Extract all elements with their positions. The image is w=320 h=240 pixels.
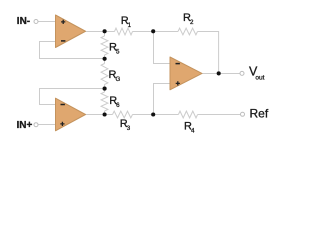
svg-text:Ref: Ref bbox=[250, 106, 269, 120]
wire A1 output to node bbox=[86, 31, 105, 33]
resistor R2 bbox=[178, 28, 198, 35]
wire A1 feedback to R5/RG node bbox=[40, 42, 105, 59]
wire R2 to output node bbox=[198, 32, 219, 74]
wire A3 output to node bbox=[202, 73, 219, 75]
node A1out/R5 bbox=[103, 29, 107, 33]
node R3/R4/A3+ bbox=[151, 112, 155, 116]
resistor RG bbox=[101, 64, 108, 85]
terminal IN+ bbox=[34, 123, 38, 127]
resistor R1 bbox=[115, 28, 133, 35]
wire node to R1 bbox=[105, 31, 115, 33]
wire node 2 to R6 bbox=[104, 89, 106, 93]
wire R5 bottom stub bbox=[104, 55, 106, 59]
wire node B to A3 inverting input bbox=[154, 32, 171, 64]
wire RG bottom stub bbox=[104, 85, 106, 89]
wire node C to A3 non-inverting input bbox=[154, 84, 171, 115]
resistor R3 bbox=[113, 111, 133, 118]
node A3 output bbox=[217, 71, 221, 75]
wire node B to R2 bbox=[154, 31, 179, 33]
wire R4 to Ref terminal bbox=[198, 114, 241, 116]
wire A2 output to node bbox=[86, 114, 105, 116]
wire R3 to node C bbox=[133, 114, 154, 116]
op-amp A3 bbox=[170, 57, 202, 90]
wire node to R3 bbox=[105, 114, 113, 116]
node R1/R2/A3- bbox=[151, 29, 155, 33]
terminal Ref bbox=[241, 112, 245, 116]
wire A2 feedback from RG/R6 node bbox=[40, 89, 105, 105]
wire R1 to node B bbox=[133, 31, 154, 33]
resistor R4 bbox=[178, 111, 197, 118]
wire R5 top stub bbox=[104, 32, 106, 37]
terminal Vout bbox=[240, 71, 244, 75]
svg-text:IN+: IN+ bbox=[17, 120, 33, 131]
op-amp A1 bbox=[56, 15, 86, 48]
op-amp A2 bbox=[56, 98, 86, 131]
wire IN- lead bbox=[38, 21, 56, 23]
node A2out/R6/R3 bbox=[103, 112, 107, 116]
resistor R6 bbox=[101, 92, 108, 111]
wire R6 bottom stub bbox=[104, 111, 106, 115]
resistor R5 bbox=[101, 36, 108, 55]
node R5/RG bbox=[103, 57, 107, 61]
wire IN+ lead bbox=[38, 124, 56, 126]
terminal IN- bbox=[34, 20, 38, 24]
wire node C to R4 bbox=[154, 114, 179, 116]
wire node 1 to RG bbox=[104, 59, 106, 64]
wire output node to Vout terminal bbox=[219, 73, 240, 75]
node RG/R6 bbox=[103, 87, 107, 91]
svg-text:IN-: IN- bbox=[17, 16, 30, 27]
